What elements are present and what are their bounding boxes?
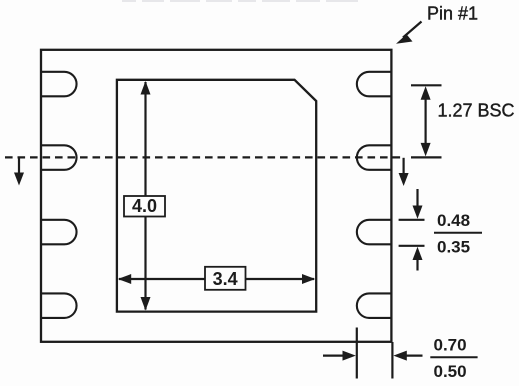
svg-text:0.70: 0.70 xyxy=(434,336,467,355)
vertical dimension 4.0: line with outward arrowheads xyxy=(141,81,151,311)
pad L3 xyxy=(41,220,77,245)
svg-text:3.4: 3.4 xyxy=(213,269,238,289)
svg-text:0.48: 0.48 xyxy=(437,211,470,230)
svg-text:Pin #1: Pin #1 xyxy=(427,4,478,24)
centerline left down-arrow xyxy=(14,158,24,186)
svg-text:0.50: 0.50 xyxy=(434,362,467,381)
horizontal dimension 3.4: line with outward arrowheads xyxy=(118,274,315,284)
svg-text:1.27 BSC: 1.27 BSC xyxy=(438,101,515,121)
svg-text:4.0: 4.0 xyxy=(132,196,157,216)
dashed centerline xyxy=(5,156,401,158)
pad L4 xyxy=(41,293,77,318)
svg-text:0.35: 0.35 xyxy=(437,238,470,257)
pad R1 xyxy=(357,72,392,97)
3.4 label box xyxy=(205,267,246,290)
centerline right down-arrow xyxy=(399,158,409,186)
1.27 BSC dimension xyxy=(411,85,442,157)
4.0 label box xyxy=(124,196,165,217)
inner rectangle (exposed pad) with chamfered pin-1 corner xyxy=(117,80,316,312)
package outline (outer rectangle) xyxy=(41,50,391,342)
cropped text remnant at very top xyxy=(122,0,358,2)
pad L1 xyxy=(41,72,77,97)
pad L2 xyxy=(41,145,77,170)
pad R2 xyxy=(357,145,392,170)
0.70 / 0.50 dimension xyxy=(323,328,423,379)
pad R4 xyxy=(357,293,392,318)
pad R3 xyxy=(357,220,392,245)
0.48 / 0.35 dimension xyxy=(399,189,425,271)
